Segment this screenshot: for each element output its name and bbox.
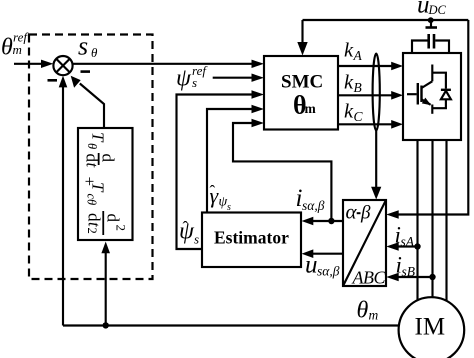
node i_sA label [395, 223, 415, 250]
wire feedback vertical into summing junction [62, 85, 64, 326]
svg-text:sα,β: sα,β [317, 264, 340, 279]
svg-text:s: s [192, 75, 197, 90]
svg-text:u: u [305, 252, 318, 279]
svg-text:θ: θ [85, 143, 99, 149]
svg-text:m: m [305, 101, 317, 116]
node gamma_hat label [210, 182, 232, 213]
node psi_s_ref label [176, 63, 208, 92]
node psi_hat_s label [179, 218, 199, 247]
wire bundle to alpha-beta block [375, 130, 377, 187]
wire u_DC sense to transform block [398, 20, 468, 215]
node junction dot i_sA [414, 243, 420, 249]
svg-text:sA: sA [401, 234, 415, 249]
node theta_m label [357, 298, 379, 324]
block inverter [403, 53, 461, 140]
wire theta_m into derivative block [105, 253, 107, 326]
svg-text:DC: DC [428, 3, 447, 17]
block alpha-beta / ABC transform [343, 200, 386, 286]
svg-text:sα,β: sα,β [302, 198, 325, 213]
svg-text:A: A [353, 48, 363, 63]
wire input reference into summing junction [14, 63, 42, 65]
dashed controller box [29, 35, 153, 280]
svg-text:s: s [78, 32, 88, 61]
wire psi_s_ref into SMC [213, 77, 253, 79]
node minus sign (derivative input) [81, 70, 91, 73]
svg-text:β: β [360, 203, 371, 224]
svg-text:θ: θ [357, 298, 369, 324]
motor IM [399, 297, 465, 358]
svg-text:2: 2 [85, 228, 99, 234]
svg-text:B: B [354, 80, 362, 95]
svg-text:IM: IM [415, 314, 446, 341]
block SMC controller [264, 56, 338, 130]
capacitor C DC-link [430, 21, 432, 27]
wire diagonal from derivative block to summing junction [80, 84, 104, 129]
svg-text:d: d [84, 213, 103, 222]
svg-text:d: d [82, 154, 101, 163]
wire u_DC down into SMC [301, 20, 303, 43]
svg-text:m: m [369, 308, 379, 323]
svg-text:2: 2 [113, 225, 128, 232]
node k_C label [344, 101, 364, 125]
svg-text:α: α [346, 200, 358, 224]
svg-text:d: d [103, 214, 122, 223]
wire s_theta from junction to SMC [73, 63, 253, 65]
wire gamma_hat estimate to SMC input 4 [207, 109, 252, 213]
wire phase B [431, 140, 433, 299]
block Estimator [202, 213, 301, 268]
svg-text:ψ: ψ [176, 66, 192, 92]
node i_s_alpha_beta label [296, 185, 325, 213]
svg-text:ˆ: ˆ [183, 218, 189, 237]
svg-text:Estimator: Estimator [214, 228, 289, 248]
wire psi_hat estimate to SMC input 3 [177, 95, 253, 250]
transistor IGBT with diode [407, 93, 417, 95]
summing junction X1 [53, 56, 72, 75]
node junction dot i_s_alpha_beta [328, 218, 334, 224]
wire i_sA to transform [398, 245, 418, 247]
node junction dot i_sB [429, 274, 435, 280]
wire theta_m bottom feedback [63, 324, 399, 326]
svg-text:T: T [88, 132, 107, 143]
svg-text:sB: sB [402, 264, 416, 279]
svg-text:θ: θ [91, 45, 98, 60]
wire i_s_alpha_beta feedback to SMC input 5 [233, 123, 331, 221]
node k_A label [344, 40, 363, 64]
wire phase A [416, 140, 418, 302]
node minus sign (feedback input) [48, 79, 58, 82]
svg-text:k: k [344, 40, 354, 62]
svg-text:ABC: ABC [352, 268, 387, 288]
svg-text:k: k [344, 101, 354, 123]
svg-text:θ: θ [1, 35, 13, 61]
svg-text:m: m [13, 42, 22, 57]
node u_DC label [417, 0, 447, 19]
svg-text:SMC: SMC [281, 72, 323, 93]
node k_B label [344, 72, 362, 96]
node i_sB label [396, 253, 416, 280]
wire phase C [445, 140, 447, 303]
wire u_DC top line [303, 19, 469, 21]
node u_s_alpha_beta label [305, 252, 340, 279]
node theta_m_ref input label [1, 30, 29, 61]
svg-text:k: k [344, 72, 354, 94]
wire i_sB to transform [398, 276, 433, 278]
wire i_s_alpha_beta from transform to estimator [313, 220, 343, 222]
svg-text:s: s [194, 232, 199, 247]
wire k_B [338, 94, 392, 96]
svg-text:s: s [227, 202, 231, 213]
node s_theta label [78, 32, 98, 61]
svg-text:C: C [354, 109, 364, 124]
wire k_C [338, 123, 392, 125]
svg-text:cθ: cθ [84, 194, 98, 206]
derivative block T d/dt [78, 128, 133, 240]
node junction dot on feedback wire [103, 322, 109, 328]
svg-text:T: T [88, 182, 107, 193]
node bundle ellipse [373, 54, 380, 131]
node junction dot u_DC [428, 17, 434, 23]
wire u_s_alpha_beta from transform to estimator [313, 253, 343, 255]
wire k_A [338, 65, 392, 67]
svg-text:ˆ: ˆ [210, 182, 216, 201]
